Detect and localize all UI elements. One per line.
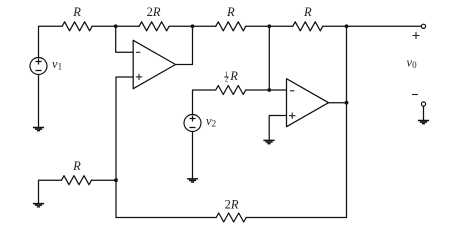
resistor R5 (1/2 R) xyxy=(216,86,246,95)
wire v1 bottom lead to ground xyxy=(38,75,40,127)
wire v2 lead up to half-R resistor xyxy=(193,90,216,115)
wire U1 output up to node B xyxy=(176,26,193,64)
op-amp U2 minus symbol xyxy=(290,90,295,92)
wire R1 to 2R through node A xyxy=(92,25,139,27)
wire U1 non-inverting input to left rail xyxy=(116,77,133,180)
svg-text:v1: v1 xyxy=(52,57,62,72)
resistor R6 (bottom-left R) xyxy=(62,176,92,185)
wire bottom right segment xyxy=(246,217,346,219)
node F junction dot xyxy=(114,178,118,182)
wire node C down to node E xyxy=(268,26,270,90)
wire left rail node F down to bottom wire xyxy=(115,180,117,217)
svg-text:R: R xyxy=(72,159,81,173)
svg-text:v2: v2 xyxy=(206,114,216,129)
op-amp U1 plus symbol xyxy=(136,74,142,80)
wire 2R to R3 through node B xyxy=(169,25,216,27)
wire U2 non-inverting input to ground xyxy=(269,116,286,140)
wire R6 to node F xyxy=(92,179,117,181)
op-amp U2 xyxy=(287,79,329,127)
wire R4 to output terminal xyxy=(323,25,422,27)
svg-text:2R: 2R xyxy=(225,197,239,211)
wire lower output terminal to ground xyxy=(423,106,425,120)
node A junction dot xyxy=(114,24,118,28)
output polarity minus sign xyxy=(412,94,418,96)
svg-text:R: R xyxy=(303,5,312,19)
ground GND4 (bottom-left branch) xyxy=(33,204,44,207)
voltage source v1 xyxy=(30,58,47,75)
ground GND5 (below lower output terminal) xyxy=(418,121,429,124)
resistor R3 (top middle R) xyxy=(216,22,246,31)
svg-text:R: R xyxy=(226,5,235,19)
wire node E to op-amp U2 inverting input xyxy=(269,89,286,91)
label 1/2 R xyxy=(224,69,238,84)
wire half-R to node E xyxy=(246,89,270,91)
wire U2 output to right rail node G xyxy=(329,102,347,104)
wire bottom-left branch ground lead xyxy=(39,180,62,203)
svg-text:2R: 2R xyxy=(147,5,161,19)
svg-text:2: 2 xyxy=(225,77,229,84)
wire R3 to R4 through node C xyxy=(246,25,293,27)
output terminal lower xyxy=(421,102,425,106)
svg-text:R: R xyxy=(72,5,81,19)
op-amp U1 xyxy=(133,40,175,88)
wire v1 top lead to top rail xyxy=(39,26,63,57)
node B junction dot xyxy=(191,24,195,28)
node G junction dot xyxy=(345,101,349,105)
resistor R4 (top right R) xyxy=(293,22,323,31)
node C junction dot xyxy=(267,24,271,28)
svg-text:R: R xyxy=(229,69,238,83)
ground GND2 (below v2) xyxy=(187,179,198,182)
op-amp U2 plus symbol xyxy=(289,113,295,119)
node E junction dot xyxy=(267,88,271,92)
svg-text:v0: v0 xyxy=(407,56,418,71)
resistor R7 (2R bottom) xyxy=(216,213,246,222)
ground GND3 (U2 non-inverting input) xyxy=(263,140,274,143)
output polarity plus sign xyxy=(413,32,420,39)
voltage source v2 xyxy=(184,115,201,132)
op-amp U1 minus symbol xyxy=(136,51,141,53)
wire right rail (node D to bottom wire) xyxy=(346,26,348,217)
output terminal upper xyxy=(421,24,425,28)
resistor R2 (2R top) xyxy=(139,22,169,31)
wire node A down to op-amp U1 inverting input xyxy=(116,26,134,52)
ground GND1 (below v1) xyxy=(33,128,44,131)
resistor R1 (top-left R) xyxy=(62,22,92,31)
node D junction dot xyxy=(345,24,349,28)
wire v2 bottom lead to ground xyxy=(192,132,194,179)
wire bottom left segment xyxy=(116,217,216,219)
